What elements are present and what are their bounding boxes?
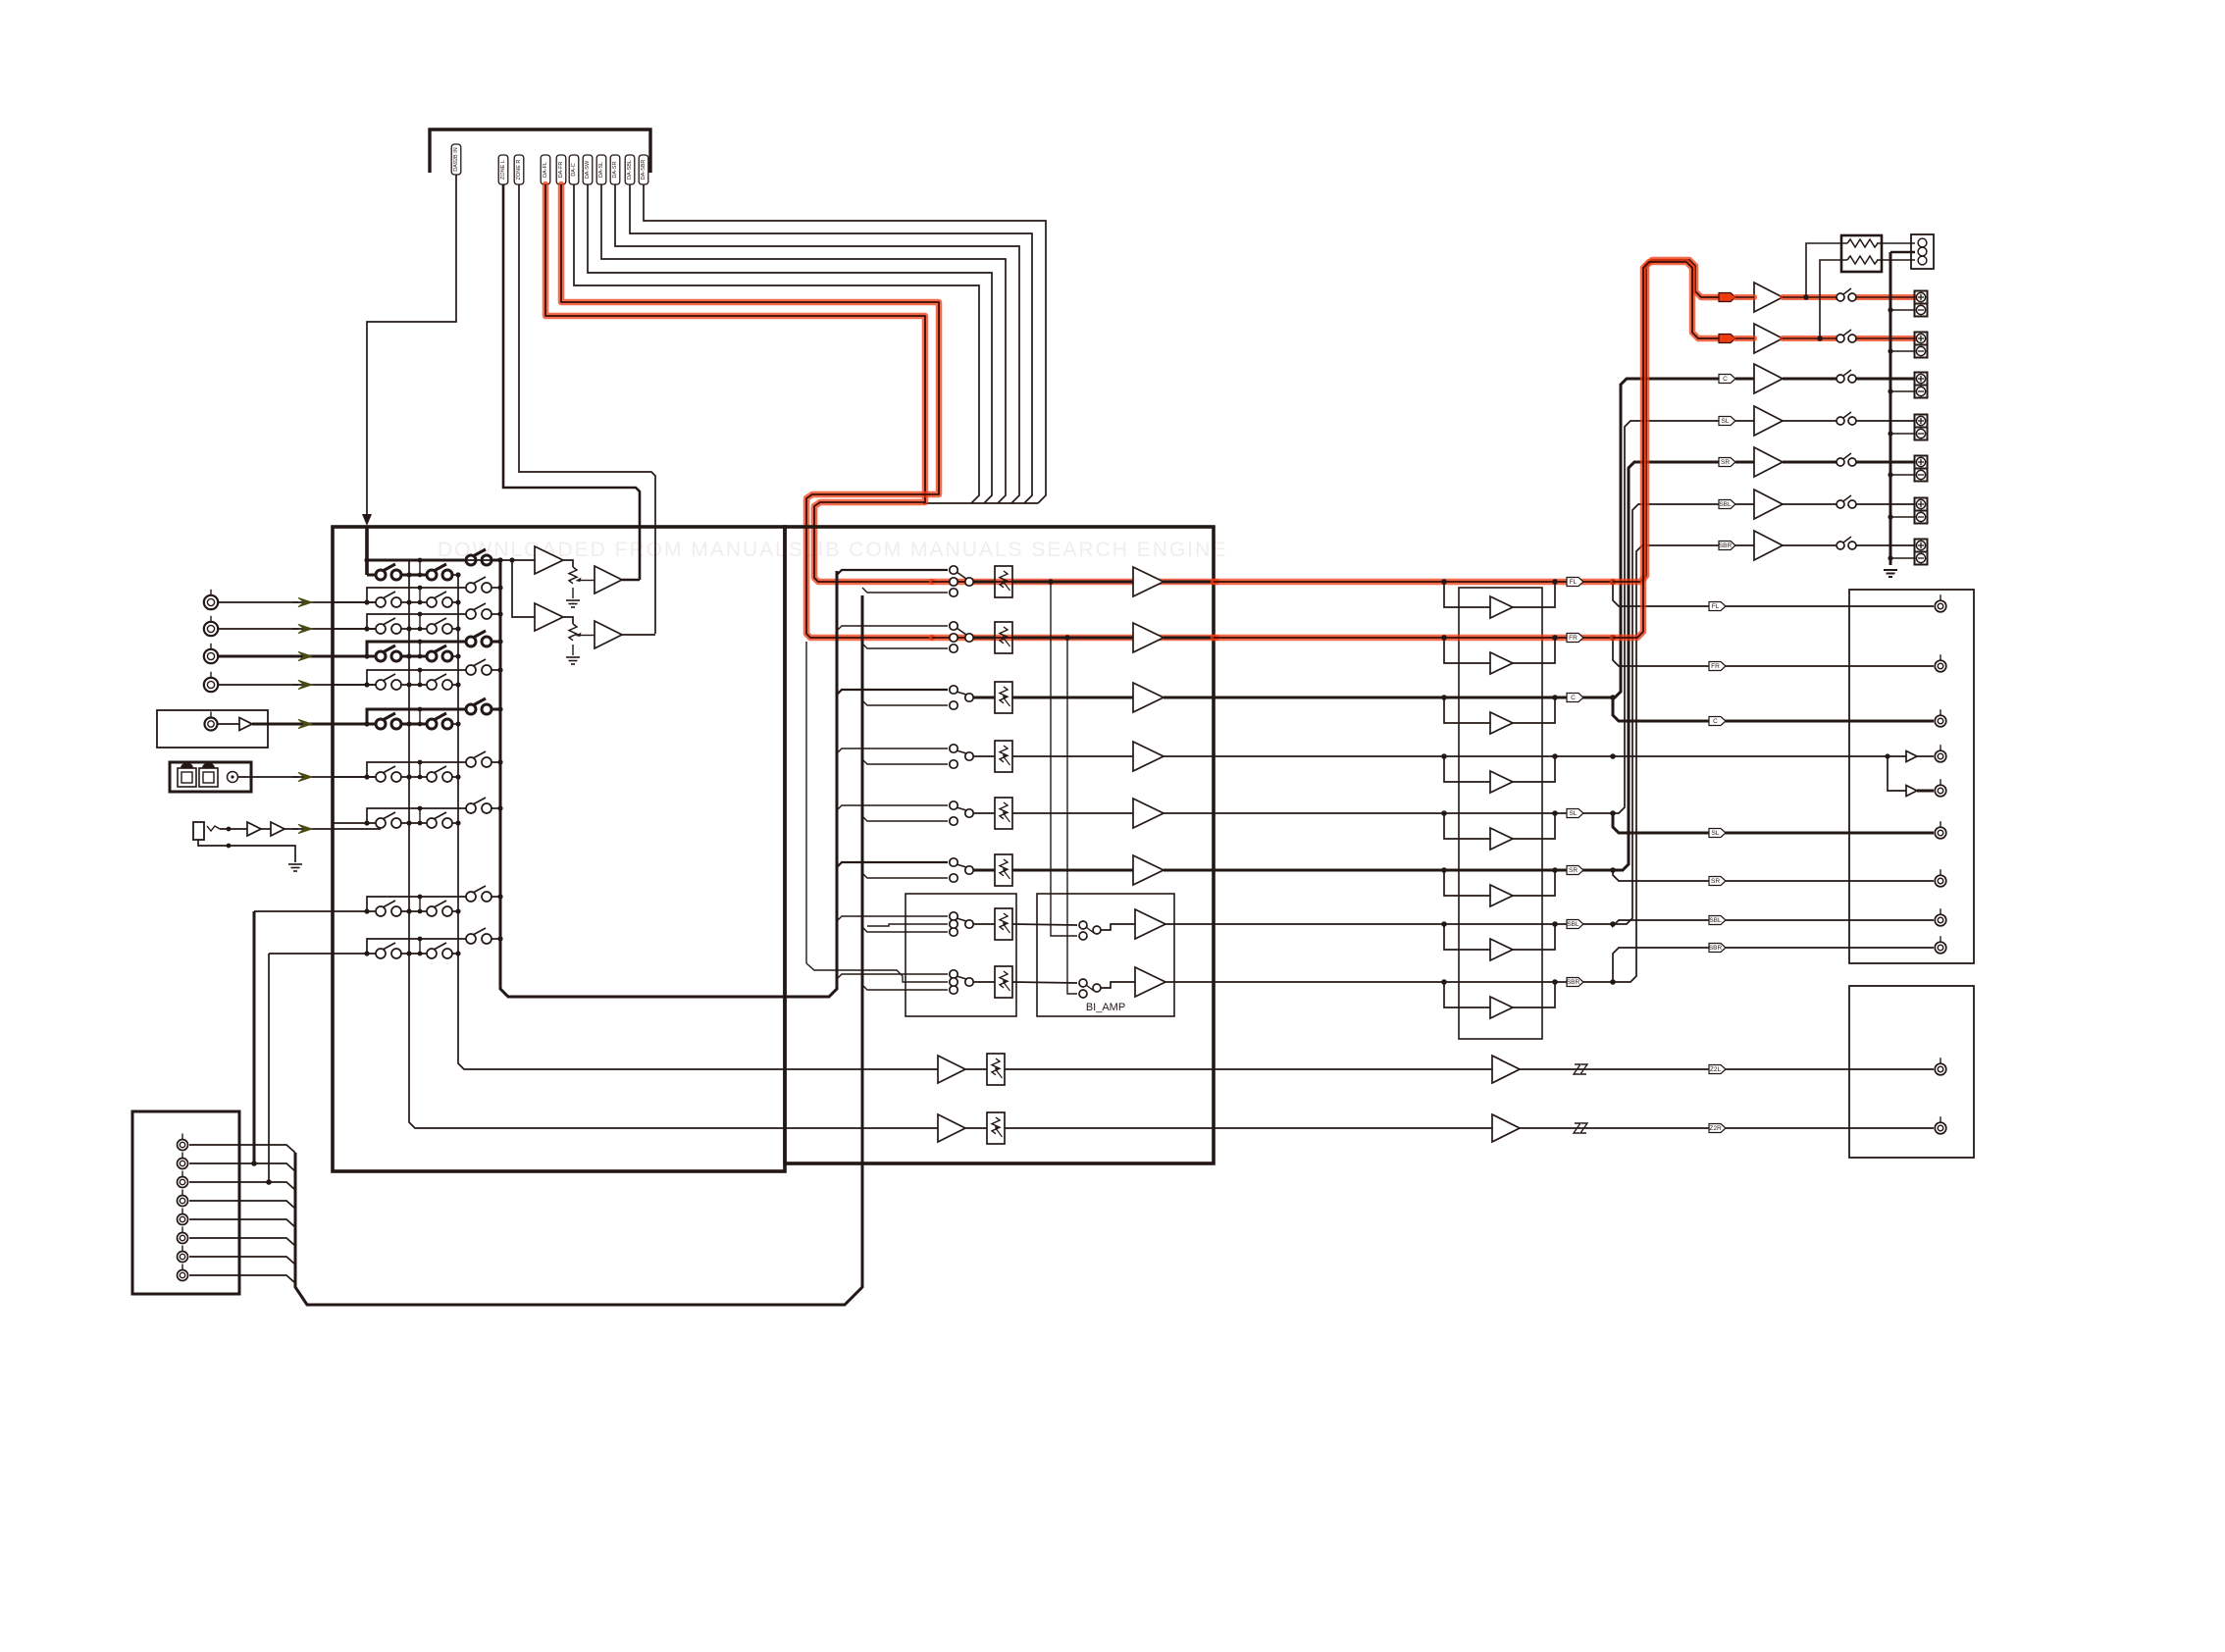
- matrix row 3 stub: [367, 614, 471, 629]
- multich jack 5: [178, 1214, 188, 1225]
- wire row FL to volume: [1214, 579, 1613, 586]
- matrix row 4 line: [333, 655, 381, 658]
- wire bus to connector: [1890, 251, 1915, 254]
- wire ZONE R pin to buffer output: [519, 184, 655, 634]
- sub selector box: [906, 894, 1016, 1016]
- wire row 2 mid: [400, 601, 432, 603]
- speaker terminal FR+: [1915, 333, 1928, 345]
- wire pre-out SBR: [1849, 947, 1934, 949]
- SW buffer 1: [1906, 751, 1917, 762]
- feed upper row 8: [837, 974, 948, 979]
- pre-out branch SR: [1613, 870, 1849, 881]
- speaker terminal SL+: [1915, 415, 1928, 428]
- zone amp Z2R: [1492, 1114, 1520, 1142]
- wire row 3 stub out: [491, 613, 500, 615]
- wire row FR to volume: [1214, 635, 1613, 642]
- wire DAC bundle merge bus: [923, 502, 1038, 504]
- level resistor SW: [995, 741, 1012, 772]
- wire RH2 out: [1877, 259, 1915, 261]
- amp feed SR: [1613, 462, 1719, 870]
- multich jack 2: [178, 1159, 188, 1169]
- wire DA-FR (red highlighted): [561, 184, 939, 638]
- wire sw-res SL: [973, 812, 995, 814]
- svg-text:SL: SL: [1712, 830, 1720, 837]
- wire row 4 mid: [400, 655, 432, 658]
- input select switch row C: [950, 686, 957, 694]
- switch S4a: [376, 651, 386, 661]
- headphone jack: [193, 822, 204, 840]
- power amp C: [1754, 364, 1783, 393]
- pot wiper 2: [576, 633, 582, 637]
- pre-out tag FL: [1709, 602, 1726, 611]
- RCA input jack IN1: [204, 595, 218, 609]
- matrix bus B: [458, 575, 785, 1069]
- wire multich 5: [189, 1219, 295, 1227]
- wire mic to block: [261, 828, 271, 830]
- speaker relay FR: [1837, 335, 1844, 342]
- power amp tag SBR: [1719, 542, 1735, 550]
- wire row 1 stub out: [491, 559, 500, 562]
- multich jack 8: [178, 1270, 188, 1281]
- feed upper row 1: [837, 570, 948, 575]
- volume pot VR2: [569, 624, 577, 641]
- wire sw-res FR: [973, 637, 995, 640]
- switch S4c (tape bus): [466, 637, 476, 646]
- wire buffer 2 output: [622, 634, 655, 636]
- resistor RH1: [1847, 239, 1878, 247]
- svg-text:ZONE R: ZONE R: [516, 160, 522, 181]
- biamp switch SBL: [1079, 921, 1087, 929]
- matrix row 4 stub: [367, 642, 471, 656]
- wire sw-res SW: [973, 755, 995, 757]
- wire biamp out SBL: [1101, 924, 1135, 930]
- wire digital input: [238, 776, 300, 778]
- wire row SW to volume: [1214, 755, 1613, 757]
- wire row 1 to bus2: [451, 574, 458, 576]
- pre-out tag C: [1709, 717, 1726, 726]
- input select switch row SL: [950, 801, 957, 809]
- svg-text:FR: FR: [1711, 663, 1720, 670]
- svg-text:SR: SR: [1569, 867, 1578, 874]
- zone buffer amp B2: [595, 621, 622, 648]
- wire multich 2: [189, 1163, 295, 1171]
- pre-out tag SR: [1709, 877, 1726, 886]
- matrix row 1 stub: [367, 559, 471, 562]
- wire amp out C: [1164, 697, 1214, 699]
- input select switch row SBL: [950, 912, 957, 920]
- wire input IN3: [219, 655, 300, 658]
- feed lower row 4: [862, 759, 948, 764]
- wire buffer 2 input: [512, 560, 535, 617]
- RCA input jack IN2: [204, 622, 218, 636]
- pre-out tag SBR: [1709, 944, 1726, 953]
- input select switch row SBR: [950, 970, 957, 978]
- channel amp C: [1133, 683, 1164, 712]
- svg-text:SBR: SBR: [1567, 979, 1580, 986]
- wire SW split: [1884, 755, 1906, 757]
- input select switch row FR: [950, 622, 957, 630]
- zone buffer amp A2: [535, 603, 563, 631]
- wire sw-res C: [973, 697, 995, 699]
- channel amp SW: [1133, 742, 1164, 771]
- pot wiper 1: [576, 578, 582, 582]
- headphone resistor box: [1841, 235, 1882, 272]
- speaker terminal SR+: [1915, 456, 1928, 469]
- wire res-amp FR: [1012, 637, 1133, 640]
- wire amp out FR: [1164, 637, 1214, 640]
- optical connector 1: [178, 768, 196, 787]
- pin DA-SBR: [639, 155, 648, 184]
- wire pre-out SBL: [1849, 919, 1934, 921]
- svg-text:SBR: SBR: [1719, 542, 1733, 549]
- BI_AMP box: [1037, 894, 1174, 1016]
- switch S6a: [376, 719, 386, 729]
- switch S1a: [376, 570, 386, 580]
- wire DAC bundle 4: [588, 184, 992, 503]
- input select switch row SW: [950, 745, 957, 752]
- channel amp SL: [1133, 799, 1164, 828]
- wire multich 8: [189, 1275, 295, 1283]
- wire sw-res SBR: [973, 981, 995, 983]
- zone2 resistor: [987, 1112, 1005, 1144]
- svg-text:SL: SL: [1570, 810, 1578, 817]
- wire res to biamp sw SBR: [1012, 982, 1077, 983]
- channel amp SR: [1133, 855, 1164, 885]
- multich jack 7: [178, 1252, 188, 1263]
- power amp SBL: [1754, 490, 1783, 519]
- wire row 9 stub out: [491, 896, 500, 898]
- wire row 9 mid: [400, 910, 432, 912]
- wire sw-res SR: [973, 869, 995, 872]
- matrix row 1 line: [367, 574, 381, 577]
- speaker terminal FL-: [1915, 304, 1928, 317]
- arrow input IN4: [298, 680, 312, 689]
- tuner buffer amp: [239, 718, 252, 731]
- channel amp FL: [1133, 567, 1164, 596]
- wire tuner output: [218, 723, 239, 725]
- wire multich 1: [189, 1145, 295, 1153]
- zone jack Z2L: [1935, 1063, 1946, 1075]
- pin DA-FL: [541, 155, 550, 184]
- wire row 7 stub out: [491, 761, 500, 763]
- feed upper row 3: [837, 690, 948, 695]
- pre-out branch SBR: [1613, 948, 1849, 982]
- RCA input jack IN3: [204, 649, 218, 663]
- svg-text:SBL: SBL: [1719, 501, 1732, 508]
- switch S8c (tape bus): [466, 803, 476, 813]
- pre-out jack SW: [1935, 750, 1946, 762]
- optical connector 2: [199, 768, 218, 787]
- wire terminal SBL- to bus: [1890, 516, 1915, 518]
- matrix row 9 line: [254, 910, 381, 912]
- power amp SBR: [1754, 531, 1783, 560]
- wire pin DA92B to input-select block: [367, 175, 456, 518]
- zone jack Z2R: [1935, 1122, 1946, 1134]
- pin DA-SL: [596, 155, 606, 184]
- wire row SR to volume: [1214, 869, 1613, 872]
- feed lower row 7: [862, 927, 948, 932]
- input select switch row FL: [950, 566, 957, 574]
- pin DA-SW: [583, 155, 593, 184]
- ground (headphone): [288, 863, 302, 865]
- feed lower row 5: [862, 816, 948, 821]
- volume loop SW: [1444, 756, 1490, 782]
- pre-out branch SBL: [1613, 920, 1849, 926]
- amp feed SBR: [1613, 545, 1719, 982]
- volume/DSP block: [1459, 588, 1542, 1039]
- amp feed C: [1613, 379, 1719, 697]
- wire row 6 mid: [400, 723, 432, 726]
- wire res-amp SL: [1012, 812, 1133, 814]
- wire row 3 mid: [400, 628, 432, 630]
- wire terminal SBR- to bus: [1890, 557, 1915, 559]
- net tag FL: [1567, 578, 1583, 587]
- wire jack sleeve to ground: [198, 840, 295, 862]
- speaker relay C: [1837, 375, 1844, 383]
- wire multich 4: [189, 1201, 295, 1209]
- multich cable down: [295, 1153, 862, 1305]
- svg-text:DA-SW: DA-SW: [585, 160, 591, 179]
- power amp tag SBL: [1719, 500, 1735, 509]
- speaker terminal SR-: [1915, 469, 1928, 482]
- volume pot VR1: [569, 567, 577, 584]
- switch S9a: [376, 906, 386, 916]
- matrix row 10 line: [269, 953, 381, 955]
- amp feed SL: [1613, 421, 1719, 813]
- pre-out branch FR: [1613, 638, 1849, 666]
- wire row 8 mid: [400, 822, 432, 824]
- wire tag-amp SR: [1735, 461, 1754, 464]
- pin DA-FR: [556, 155, 566, 184]
- level resistor SR: [995, 854, 1012, 886]
- multich jack 6: [178, 1233, 188, 1244]
- speaker terminal SL-: [1915, 428, 1928, 440]
- matrix row 2 line: [333, 601, 381, 603]
- matrix row 7 stub: [367, 762, 471, 777]
- svg-text:C: C: [1723, 376, 1728, 383]
- switch S7b: [427, 772, 437, 782]
- power amp SL: [1754, 406, 1783, 436]
- pre-out jack FR: [1935, 660, 1946, 672]
- speaker relay FL: [1837, 293, 1844, 301]
- feed middle row 7: [867, 924, 948, 926]
- svg-text:SR: SR: [1721, 459, 1730, 466]
- pre-out jack SW2: [1935, 785, 1946, 797]
- biamp amp SBR: [1135, 967, 1165, 997]
- switch S5c (tape bus): [466, 665, 476, 675]
- pre-out jack FL: [1935, 600, 1946, 612]
- wire input IN4: [219, 684, 300, 686]
- wire res-amp C: [1012, 697, 1133, 699]
- wire row 8 to bus2: [451, 822, 458, 824]
- zz mark Z2R: [1574, 1123, 1580, 1133]
- switch S3c (tape bus): [466, 609, 476, 619]
- wire buffer 2 tap: [563, 617, 573, 624]
- wire tag-amp SBR: [1735, 544, 1754, 546]
- arrow mic: [298, 824, 312, 833]
- wire row 6 to bus2: [451, 723, 458, 725]
- speaker terminal FL+: [1915, 291, 1928, 304]
- power amp tag SL: [1719, 417, 1735, 426]
- wire multich 7: [189, 1257, 295, 1265]
- pre-out tag SL: [1709, 829, 1726, 838]
- zone2 buffer amp: [938, 1114, 965, 1142]
- arrow input IN2: [298, 624, 312, 633]
- net tag SBR: [1567, 978, 1583, 987]
- speaker relay SR: [1837, 458, 1844, 466]
- pin DA-C: [569, 155, 579, 184]
- switch S4b: [427, 651, 437, 661]
- wire row SBL to volume: [1214, 923, 1613, 925]
- tuner box: [157, 710, 268, 748]
- digital input box: [170, 762, 251, 792]
- switch S2a: [376, 597, 386, 607]
- matrix bus C (selected source, thick): [500, 560, 837, 997]
- matrix row 6 stub: [367, 709, 471, 724]
- junction row SR: [1610, 867, 1616, 873]
- svg-text:C: C: [1571, 695, 1576, 701]
- wire row 2 to bus2: [451, 601, 458, 603]
- wire multich input row10: [268, 954, 270, 1182]
- wire FR to RH2: [1820, 260, 1847, 338]
- wire row 8 stub out: [491, 807, 500, 809]
- zone out block: [1849, 986, 1974, 1158]
- switch S8a: [376, 818, 386, 828]
- wire terminal SR- to bus: [1890, 474, 1915, 476]
- speaker terminal SBR+: [1915, 540, 1928, 552]
- zone1 buffer amp: [938, 1056, 965, 1083]
- power amp tag SR: [1719, 458, 1735, 467]
- wire row 5 mid: [400, 684, 432, 686]
- volume loop FR: [1444, 638, 1490, 663]
- volume loop SBR: [1444, 982, 1490, 1007]
- junction row SW: [1610, 753, 1616, 759]
- power amp FR: [1754, 324, 1783, 353]
- input selector block outline: [333, 527, 785, 1171]
- wire row 10 to bus2: [451, 953, 458, 955]
- pre-out jack block: [1849, 590, 1974, 963]
- bus upper contacts (selected source): [836, 571, 839, 989]
- feed upper row 2: [837, 626, 948, 631]
- wire row SBR to volume: [1214, 981, 1613, 983]
- speaker terminal FR-: [1915, 345, 1928, 358]
- channel amp FR: [1133, 623, 1164, 652]
- net tag SBL: [1567, 920, 1583, 929]
- wire amp out SR: [1164, 869, 1214, 872]
- pre-out jack C: [1935, 715, 1946, 727]
- wire zone Z2R right: [1214, 1127, 1492, 1129]
- svg-text:FR: FR: [1569, 635, 1578, 642]
- svg-text:DA-SR: DA-SR: [612, 161, 618, 178]
- level resistor SBL: [995, 908, 1012, 940]
- wire buffer 1 output: [622, 579, 640, 582]
- pre-out jack SL: [1935, 827, 1946, 839]
- wire buffer 1 tap: [563, 560, 573, 567]
- wire zone1: [785, 1068, 938, 1070]
- multi-channel input block: [132, 1111, 239, 1294]
- pin ZONE R: [514, 155, 524, 184]
- zone buffer amp A1: [535, 546, 563, 574]
- wire row 4 stub out: [491, 641, 500, 644]
- switch S3a: [376, 624, 386, 634]
- pin ZONE L: [498, 155, 508, 184]
- svg-text:SL: SL: [1722, 418, 1730, 425]
- level resistor SL: [995, 798, 1012, 829]
- pin DA-SR: [610, 155, 620, 184]
- switch S2b: [427, 597, 437, 607]
- wire DAC bundle 8: [644, 184, 1046, 503]
- switch S6c (tape bus): [466, 704, 476, 714]
- center DSP block outline: [785, 527, 1214, 1163]
- biamp switch SBR: [1079, 979, 1087, 987]
- svg-text:Z2R: Z2R: [1709, 1125, 1722, 1132]
- wire pre-out FR: [1849, 665, 1934, 667]
- wire row 4 to bus2: [451, 655, 458, 657]
- wire amp out FL: [1164, 581, 1214, 584]
- resistor RH2: [1847, 256, 1878, 264]
- multich jack 3: [178, 1177, 188, 1188]
- SW buffer 2: [1906, 786, 1917, 797]
- feed upper row 5: [837, 805, 948, 810]
- switch S7a: [376, 772, 386, 782]
- wire FL to RH1: [1806, 243, 1847, 297]
- wire row SL to volume: [1214, 812, 1613, 814]
- arrowhead into block: [362, 514, 372, 526]
- volume loop SR: [1444, 870, 1490, 896]
- switch S10a: [376, 949, 386, 958]
- svg-text:DA-FR: DA-FR: [558, 162, 564, 179]
- svg-text:Z2L: Z2L: [1710, 1066, 1722, 1073]
- pre-out tag FR: [1709, 662, 1726, 671]
- wire res-amp SW: [1012, 755, 1133, 757]
- junction row FL: [1610, 579, 1616, 585]
- wire terminal C- to bus: [1890, 390, 1915, 392]
- feed upper row 4: [837, 749, 948, 753]
- wire pre-out C: [1849, 720, 1934, 723]
- junction row SBR: [1610, 979, 1616, 985]
- wire zone2: [785, 1127, 938, 1129]
- volume loop SL: [1444, 813, 1490, 839]
- zone amp Z2L: [1492, 1056, 1520, 1083]
- wire tag-amp C: [1735, 378, 1754, 381]
- svg-text:DA-SBR: DA-SBR: [641, 160, 647, 181]
- wire multich 3: [189, 1182, 295, 1190]
- switch S3b: [427, 624, 437, 634]
- wire biamp out SBR: [1101, 982, 1135, 988]
- wire sw-res SBL: [973, 923, 995, 925]
- zone buffer amp B1: [595, 566, 622, 594]
- wire row C to volume: [1214, 697, 1613, 699]
- svg-text:SR: SR: [1711, 878, 1720, 885]
- connector bracket J1: [430, 129, 650, 173]
- wire buffer 1 input: [367, 559, 535, 561]
- red trunk FL: [1613, 260, 1719, 582]
- input select switch row SR: [950, 858, 957, 866]
- ground (speaker bus): [1884, 569, 1897, 571]
- svg-text:SBL: SBL: [1567, 921, 1579, 928]
- feed lower row 8: [862, 985, 948, 990]
- feed lower row 3: [862, 700, 948, 705]
- svg-text:DA-C: DA-C: [571, 163, 577, 176]
- switch S6b: [427, 719, 437, 729]
- zone1 resistor: [987, 1054, 1005, 1085]
- junction row SBL: [1610, 921, 1616, 927]
- speaker terminal SBL-: [1915, 511, 1928, 524]
- wire pre-out FL: [1849, 605, 1934, 607]
- mic amp 2: [271, 822, 285, 836]
- RCA input jack IN4: [204, 678, 218, 692]
- pre-out tag SBL: [1709, 916, 1726, 925]
